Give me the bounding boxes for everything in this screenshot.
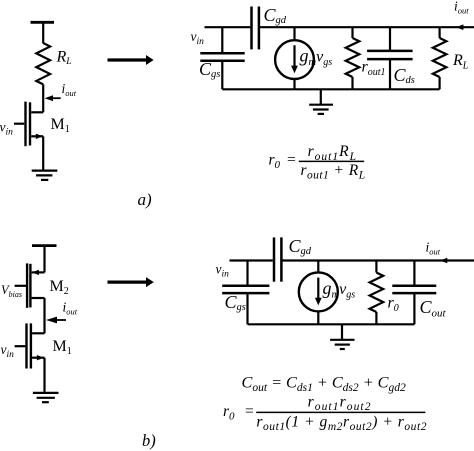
resistor RL (small-signal a) [433, 27, 447, 89]
svg-text:vin: vin [191, 29, 205, 47]
block arrow (b) [108, 277, 154, 287]
svg-text:gmvgs: gmvgs [300, 45, 333, 68]
ground (circuit a) [32, 171, 58, 180]
equation a: r0 = rout1 RL / (rout1 + RL) [269, 143, 366, 181]
svg-text:RL: RL [452, 52, 469, 72]
capacitor Cgs (small-signal b) [222, 286, 269, 293]
current source gm vgs (small-signal a) [275, 27, 314, 89]
svg-text:RL: RL [56, 48, 72, 67]
ground (circuit b) [33, 393, 59, 402]
transistor M1 (circuit a) [14, 102, 43, 170]
svg-text:vin: vin [0, 119, 13, 137]
svg-text:M1: M1 [51, 116, 70, 135]
resistor r0 (small-signal b) [370, 261, 384, 325]
svg-text:Cgs: Cgs [199, 59, 220, 80]
wire Cgs branch (small-signal b) [246, 261, 248, 286]
resistor r_out1 (small-signal a) [346, 27, 360, 89]
svg-text:rout1RL: rout1RL [308, 143, 357, 163]
capacitor Cds (small-signal a) [367, 27, 413, 89]
wire Cgs branch (small-signal a) [221, 27, 223, 53]
wire top node (small-signal b) [281, 259, 474, 261]
svg-text:Cds: Cds [394, 65, 415, 86]
svg-text:Cgd: Cgd [289, 236, 312, 257]
current arrow i_out (small-signal b) [440, 258, 448, 264]
svg-text:Cgs: Cgs [225, 292, 246, 313]
svg-text:b): b) [142, 431, 156, 450]
wire input (small-signal b) [230, 259, 273, 261]
block arrow (a) [108, 55, 154, 65]
svg-text:vin: vin [1, 342, 15, 360]
supply rail (circuit a) [31, 22, 55, 43]
svg-text:Cgd: Cgd [264, 5, 287, 26]
svg-text:r0=: r0= [269, 152, 296, 172]
svg-text:iout: iout [62, 81, 77, 98]
transistor M1 (circuit b) [15, 323, 45, 391]
capacitor Cgd (small-signal a) [252, 7, 259, 50]
svg-text:Cout = Cds1 + Cds2 + Cgd2: Cout = Cds1 + Cds2 + Cgd2 [242, 373, 406, 394]
wire drain (circuit a) [42, 84, 44, 112]
svg-text:iout: iout [454, 0, 469, 16]
current arrow i_out (circuit a) [45, 95, 61, 101]
svg-text:a): a) [138, 190, 153, 209]
svg-text:iout: iout [63, 300, 78, 317]
supply rail (circuit b) [32, 246, 57, 273]
svg-text:r0: r0 [388, 294, 399, 314]
wire top node (small-signal a) [259, 26, 474, 28]
svg-text:Cout: Cout [420, 297, 447, 320]
current arrow i_out (circuit b) [46, 317, 66, 324]
svg-text:r0=: r0= [223, 403, 254, 423]
svg-text:rout1: rout1 [362, 58, 386, 78]
capacitor Cout (small-signal b) [392, 261, 436, 325]
svg-text:rout1rout2: rout1rout2 [308, 393, 372, 413]
svg-text:M2: M2 [50, 278, 69, 297]
current source gm vgs (small-signal b) [299, 261, 338, 325]
svg-text:vin: vin [216, 262, 230, 280]
svg-text:M1: M1 [53, 338, 72, 357]
wire input (small-signal a) [205, 26, 251, 28]
ground (small-signal b) [330, 324, 354, 349]
svg-text:rout1 + RL: rout1 + RL [301, 162, 366, 182]
svg-text:gmvgs: gmvgs [323, 278, 356, 301]
transistor M2 (circuit b) [15, 263, 45, 333]
wire Cgs to bottom (small-signal b) [246, 293, 248, 324]
wire bottom node (small-signal b) [248, 323, 415, 325]
ground (small-signal a) [309, 89, 333, 114]
current arrow i_out (small-signal a) [456, 24, 464, 30]
capacitor Cgd (small-signal b) [274, 237, 281, 281]
wire bottom node (small-signal a) [222, 88, 439, 90]
resistor RL (circuit a) [36, 43, 50, 84]
wire Cgs to bottom (small-signal a) [221, 61, 223, 90]
svg-text:iout: iout [426, 240, 441, 257]
capacitor Cgs (small-signal a) [200, 53, 244, 61]
equation b line 2: r0 = rout1 rout2 / (rout1(1+gm2 rout2)+rout2) [223, 393, 427, 433]
svg-text:rout1(1 + gm2rout2) + rout2: rout1(1 + gm2rout2) + rout2 [256, 414, 427, 434]
